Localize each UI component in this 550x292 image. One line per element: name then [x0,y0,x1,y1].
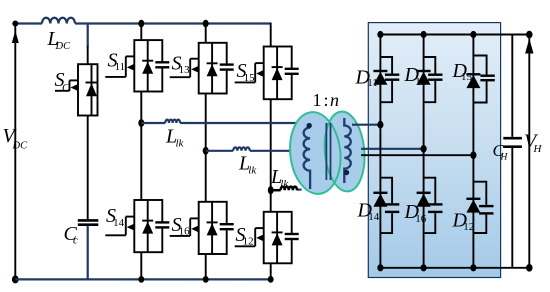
label D15 [452,60,473,83]
node leg2 top rail [421,31,427,38]
wire C [271,188,302,191]
wire VH [528,35,530,268]
label CC [64,223,79,247]
svg-text:H: H [533,143,543,155]
svg-text:13: 13 [415,76,427,88]
transformer secondary winding [344,118,351,183]
inductor Llk C [281,187,297,191]
label S12 [236,224,254,248]
transformer primary winding [304,123,312,189]
svg-text:c: c [73,234,78,246]
diode D16 [417,193,431,207]
switch SC [55,64,98,115]
wire bottom rail primary [15,278,272,280]
capacitor snubber D12 [473,182,493,233]
rectifier shaded box [368,23,500,278]
switch S13 [170,43,234,94]
label D13 [404,64,427,88]
label S16 [172,214,191,238]
wire CC to rail [87,226,89,279]
node leg2 bottom rail [421,264,427,271]
wire top rail primary [15,22,270,24]
svg-text:12: 12 [463,221,474,233]
switch S16 [170,202,234,254]
svg-text:n: n [330,90,339,110]
svg-text:DC: DC [12,141,29,152]
wire sec1 [352,124,380,126]
label D16 [404,201,427,225]
label SC [55,69,71,94]
svg-text::: : [324,90,329,110]
VH arrow [525,39,533,54]
svg-text:12: 12 [243,235,254,247]
VDC arrow [12,31,19,44]
node leg1 bottom [138,276,144,283]
wire rect bottom rail [380,267,529,269]
label CH [493,141,509,162]
svg-text:DC: DC [55,41,72,52]
capacitor snubber D15 [473,56,494,103]
svg-text:H: H [500,153,509,163]
node leg3 bottom rail [470,264,476,271]
wire SC branch top [87,24,89,65]
capacitor snubber D13 [424,57,443,102]
node wireB [203,147,209,155]
svg-text:16: 16 [415,213,427,225]
wire rect leg2 [423,35,425,268]
svg-text:15: 15 [461,71,473,83]
svg-text:1: 1 [313,90,322,110]
switch S12 [235,212,299,263]
label VH [524,131,543,155]
wire SC to CC [87,116,89,220]
wire sec3 [361,154,473,156]
inductor Llk A [165,120,180,123]
wire rect leg1 [379,35,381,268]
node VH bottom [526,264,533,272]
node sec1-leg1 [377,121,383,129]
svg-text:16: 16 [179,226,191,238]
node leg1 top [138,20,144,27]
label 1:n [313,90,340,110]
wire VDC left [14,24,16,280]
wire sec2 [361,148,424,150]
svg-text:lk: lk [176,137,185,149]
label VDC [3,125,29,152]
wire leg2 lower [205,254,207,279]
wire leg1 lower [140,252,142,279]
wire A [141,122,302,124]
node sec3-leg3 [470,151,476,159]
label S11 [108,50,126,74]
wire leg3 middle [270,99,272,212]
wire rect top rail [380,34,529,36]
diode D13 [417,71,431,85]
node VH top [526,31,533,39]
svg-text:14: 14 [368,211,380,223]
inductor Llk B [233,147,250,150]
label D12 [452,210,475,234]
label LDC [47,28,72,52]
switch S14 [105,200,169,252]
transformer core [326,123,330,180]
inductor LDC [42,18,75,24]
label S15 [237,60,256,84]
node leg1 bottom rail [377,264,383,271]
svg-text:C: C [62,82,70,94]
label D11 [355,67,378,89]
wire leg2 upper [205,24,207,43]
node leg2 bottom [203,276,209,283]
diode D14 [373,193,387,207]
wire leg2 middle [205,94,207,202]
label Llk A [165,126,185,150]
svg-text:11: 11 [115,61,126,73]
diode D12 [466,199,480,213]
label S13 [172,53,191,77]
capacitor CC [78,220,99,224]
svg-text:14: 14 [113,217,125,229]
node leg1 top rail [377,31,383,38]
capacitor snubber D14 [380,178,399,233]
transformer ellipses [286,110,368,197]
node top-left [12,21,18,27]
node leg3 top rail [470,31,476,38]
diode D11 [373,71,387,85]
wire leg1 upper [140,24,142,41]
wire B [206,150,295,152]
node bottom-left [12,275,19,283]
node wireA [138,119,144,127]
node leg2 top [203,20,209,27]
diode D15 [466,74,480,88]
capacitor snubber D11 [380,57,399,102]
wire rect leg3 [472,35,474,268]
label Llk B [238,153,257,177]
label Llk C [270,166,289,190]
wire leg3 lower [270,263,272,279]
label S14 [106,205,125,229]
capacitor CH [503,35,522,268]
svg-text:11: 11 [367,77,378,89]
capacitor snubber D16 [424,178,443,233]
switch S15 [235,47,299,100]
node leg3 bottom [268,276,274,283]
label D14 [357,200,380,224]
svg-text:15: 15 [244,72,256,84]
node sec2-leg2 [421,145,427,153]
wire leg1 middle [140,92,142,201]
switch S11 [105,40,169,91]
wire leg3 upper [270,23,272,47]
node wireC [268,186,274,194]
svg-text:13: 13 [179,64,191,76]
svg-text:lk: lk [248,164,257,176]
